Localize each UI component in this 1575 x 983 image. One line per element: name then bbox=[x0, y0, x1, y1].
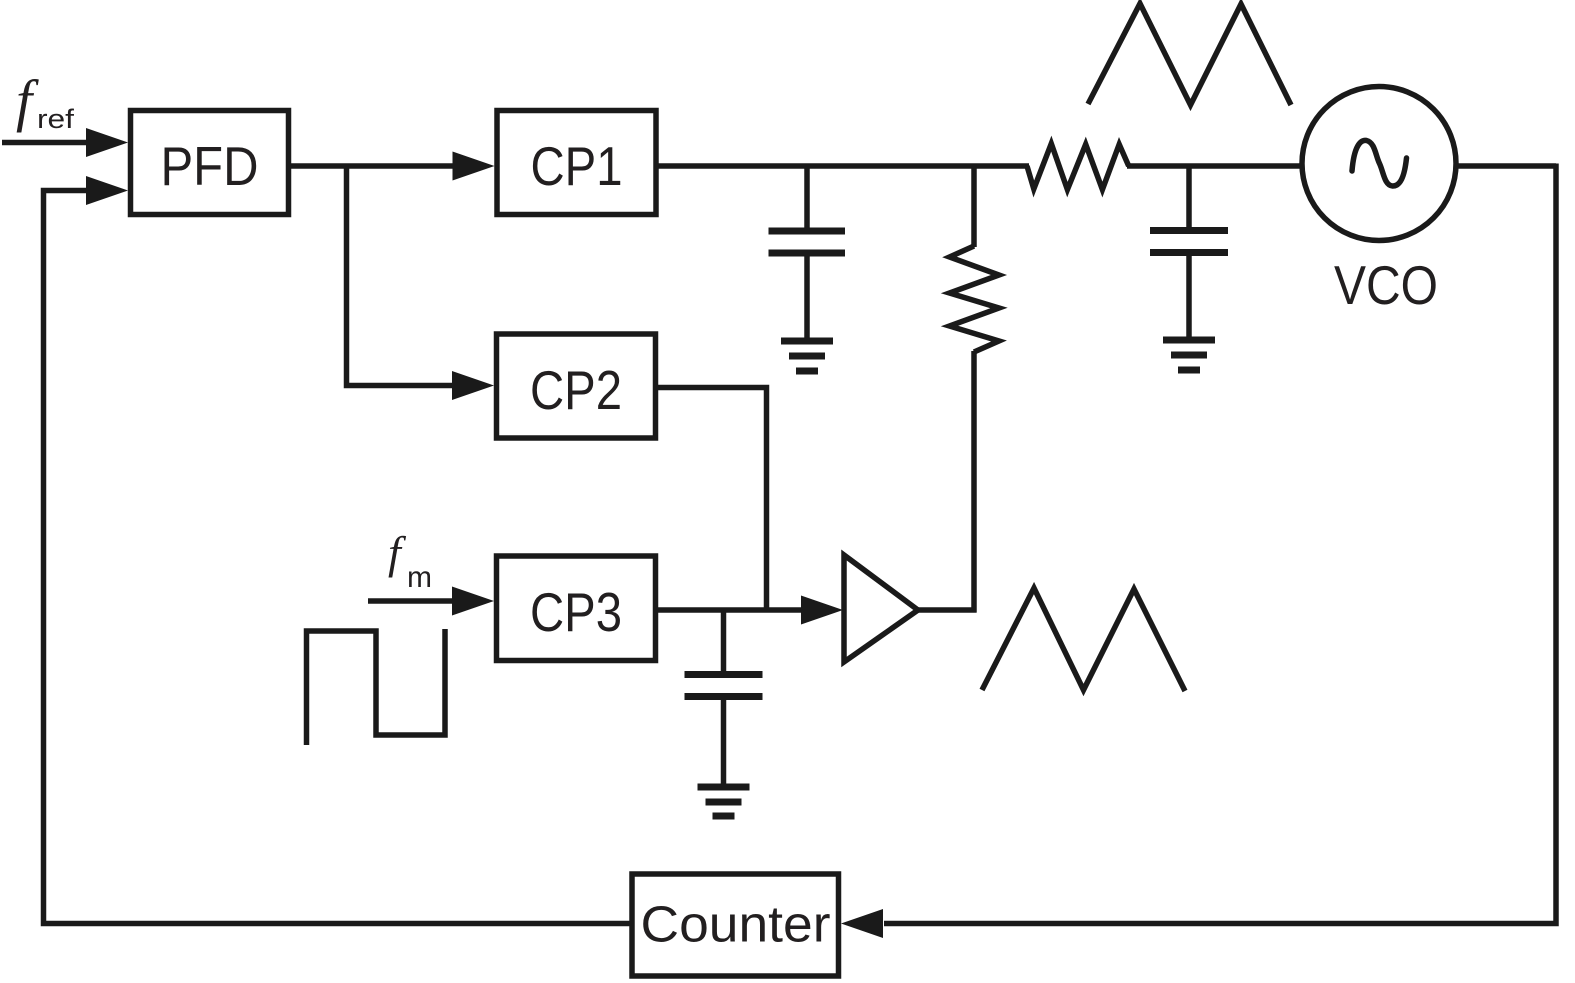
block PFD bbox=[131, 111, 289, 215]
arrowhead into buffer bbox=[801, 596, 843, 625]
wire CP1 output to loop filter bbox=[656, 163, 1029, 169]
buffer amplifier A1 bbox=[844, 555, 918, 662]
capacitor C1 stem bottom bbox=[804, 257, 810, 339]
ground under C2 bbox=[1163, 340, 1215, 370]
wire R1 to VCO bbox=[1127, 163, 1303, 169]
label f_ref bbox=[16, 68, 75, 134]
resistor R2 lead bottom to buffer output bbox=[971, 351, 977, 613]
label f_m bbox=[388, 527, 432, 594]
wire CP3 output bbox=[656, 607, 806, 613]
capacitor C2 stem bottom bbox=[1186, 256, 1192, 337]
capacitor C2 stem top bbox=[1186, 166, 1192, 227]
resistor R1 (horizontal zigzag) bbox=[1027, 144, 1129, 190]
triangle wave at buffer output (ramp) bbox=[982, 588, 1185, 691]
wire VCO output to right rail bbox=[1455, 163, 1556, 169]
svg-text:CP3: CP3 bbox=[530, 581, 622, 643]
block CP1 bbox=[497, 111, 656, 215]
svg-text:ref: ref bbox=[37, 104, 75, 134]
wire f_ref input bbox=[2, 140, 92, 146]
wire buffer output up to R2 bbox=[916, 607, 977, 613]
svg-text:PFD: PFD bbox=[161, 135, 259, 197]
wire f_m input bbox=[368, 598, 456, 604]
triangle wave at VCO input (ramp) bbox=[1088, 4, 1291, 106]
VCO source circle bbox=[1302, 87, 1456, 241]
svg-text:m: m bbox=[407, 561, 432, 594]
wire feedback from Counter to PFD pin 2 bbox=[44, 191, 631, 924]
capacitor C3 stem top bbox=[721, 610, 727, 672]
capacitor C1 stem top bbox=[804, 166, 810, 228]
block CP2 bbox=[497, 334, 656, 438]
wire PFD output bbox=[291, 163, 456, 169]
arrowhead into CP2 bbox=[452, 371, 494, 400]
wire CP2 output down to summing node bbox=[656, 388, 767, 613]
svg-text:CP2: CP2 bbox=[530, 359, 622, 421]
svg-text:CP1: CP1 bbox=[531, 135, 623, 197]
block Counter bbox=[632, 874, 839, 976]
svg-text:f: f bbox=[388, 527, 407, 578]
wire branch PFD output to CP2 bbox=[347, 166, 457, 386]
arrowhead into Counter bbox=[841, 909, 883, 938]
svg-text:Counter: Counter bbox=[641, 896, 831, 953]
arrowhead feedback into PFD pin 2 bbox=[86, 176, 128, 205]
capacitor C3 plates bbox=[685, 671, 763, 678]
ground under C1 bbox=[781, 341, 833, 371]
ground under C3 bbox=[698, 787, 750, 816]
capacitor C3 stem bottom bbox=[721, 700, 727, 784]
resistor R2 (vertical zigzag) bbox=[950, 246, 1000, 352]
capacitor C1 plates bbox=[769, 228, 846, 235]
arrowhead f_ref into PFD pin 1 bbox=[86, 128, 128, 157]
right rail down bbox=[884, 164, 1556, 924]
block CP3 bbox=[497, 556, 656, 661]
arrowhead into CP1 bbox=[453, 152, 495, 181]
arrowhead into CP3 bbox=[452, 587, 494, 616]
square wave (modulation signal) bbox=[307, 629, 446, 745]
capacitor C2 plates bbox=[1150, 227, 1228, 234]
svg-text:f: f bbox=[16, 68, 39, 133]
sine symbol inside VCO bbox=[1352, 140, 1407, 186]
resistor R2 vertical lead top bbox=[971, 166, 977, 247]
svg-text:VCO: VCO bbox=[1334, 254, 1438, 316]
